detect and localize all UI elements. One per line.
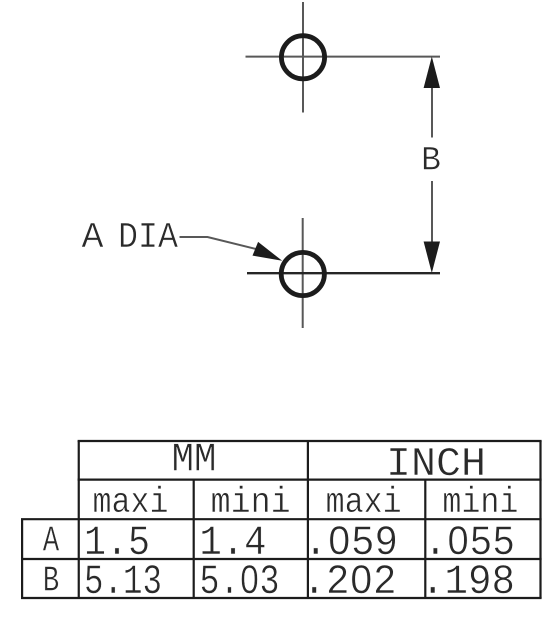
svg-text:mini: mini [211,482,291,523]
svg-text:5.13: 5.13 [84,558,162,606]
svg-text:B: B [421,143,441,181]
svg-text:A: A [82,217,104,258]
svg-text:maxi: maxi [93,482,169,523]
svg-text:mini: mini [442,482,518,523]
svg-text:maxi: maxi [326,482,402,523]
svg-text:DIA: DIA [118,217,178,258]
svg-text:MM: MM [172,438,217,484]
svg-text:5.03: 5.03 [200,558,280,606]
svg-text:.198: .198 [421,558,515,606]
svg-text:B: B [43,561,60,602]
svg-text:.202: .202 [303,558,397,606]
svg-text:A: A [43,521,60,562]
